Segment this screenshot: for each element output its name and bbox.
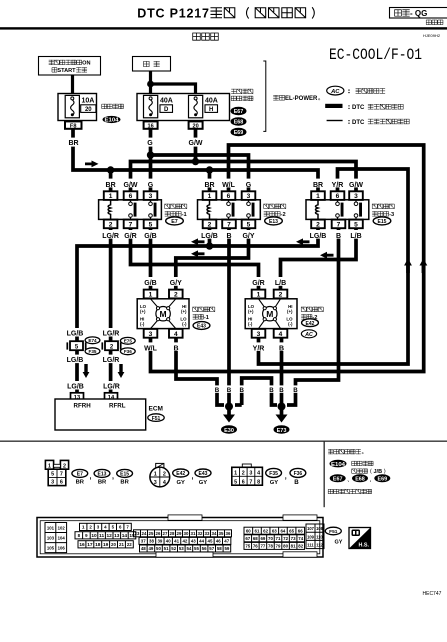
wire label LG/R mid <box>102 355 122 364</box>
svg-text:LG/B: LG/B <box>67 384 84 391</box>
svg-text:42: 42 <box>182 539 187 544</box>
svg-text:76: 76 <box>253 544 258 549</box>
svg-text:24: 24 <box>142 531 147 536</box>
svg-text:W/L: W/L <box>222 182 236 189</box>
svg-text:6: 6 <box>336 193 340 200</box>
pin 2 <box>169 290 183 299</box>
wire W/L loop <box>151 145 424 372</box>
arrow left on LG/B bus 2 <box>296 238 310 245</box>
svg-text:1: 1 <box>109 193 113 200</box>
ground symbol left <box>223 415 235 423</box>
svg-text:73: 73 <box>291 536 296 541</box>
svg-text:G: G <box>246 182 252 189</box>
svg-text:104: 104 <box>58 536 66 541</box>
svg-text:28: 28 <box>170 531 175 536</box>
svg-text:43: 43 <box>191 539 196 544</box>
section label <box>193 33 219 40</box>
svg-text:71: 71 <box>276 536 281 541</box>
oval E69 <box>231 128 247 136</box>
svg-text:14: 14 <box>122 533 128 539</box>
svg-text:3: 3 <box>257 331 261 338</box>
svg-text:77: 77 <box>260 544 265 549</box>
svg-text:25: 25 <box>149 531 154 536</box>
wire B relay-3 to ground <box>287 228 339 405</box>
svg-text:E69: E69 <box>378 476 388 482</box>
svg-text:AC: AC <box>304 332 313 338</box>
svg-text:66: 66 <box>298 528 303 533</box>
pin 2 <box>274 290 288 299</box>
svg-text:B: B <box>215 387 220 394</box>
svg-text:(+): (+) <box>248 309 254 314</box>
svg-text:GY: GY <box>177 480 186 486</box>
arrow left on L/B <box>320 252 334 259</box>
svg-text:55: 55 <box>194 546 199 551</box>
svg-text:,: , <box>112 474 114 481</box>
coil <box>108 200 111 220</box>
svg-text:(+): (+) <box>140 309 146 314</box>
svg-text:33: 33 <box>205 531 210 536</box>
wire BR drop relay-2 <box>208 170 212 192</box>
svg-text:57: 57 <box>209 546 214 551</box>
pin 6 <box>222 191 236 200</box>
svg-text:,: , <box>192 474 194 481</box>
oval E67 <box>231 107 247 115</box>
svg-text:5: 5 <box>247 221 251 228</box>
svg-text:45: 45 <box>208 539 213 544</box>
svg-text:LG/B: LG/B <box>67 331 84 338</box>
svg-text:(-): (-) <box>288 321 293 326</box>
svg-text:E75: E75 <box>124 339 133 344</box>
arrow up on W/L vertical <box>420 259 428 274</box>
fusible link label <box>231 89 253 93</box>
svg-text:23: 23 <box>135 531 140 536</box>
svg-text:82: 82 <box>298 544 303 549</box>
svg-text:G/W: G/W <box>124 182 138 189</box>
pin 3 <box>252 329 266 338</box>
pin 7 <box>332 220 346 229</box>
vertical divider <box>324 442 325 508</box>
svg-text:1: 1 <box>316 193 320 200</box>
pin 1 <box>144 290 158 299</box>
svg-text:32: 32 <box>198 531 203 536</box>
coil <box>316 200 319 220</box>
pin 3 <box>144 191 158 200</box>
svg-text:54: 54 <box>186 546 191 551</box>
svg-text:1: 1 <box>48 463 51 469</box>
oval E104 <box>103 116 121 123</box>
svg-text:19: 19 <box>103 542 109 548</box>
wire BR drop relay-1 <box>109 170 113 192</box>
wire label LG/B low <box>66 381 86 390</box>
svg-text:2: 2 <box>208 221 212 228</box>
svg-text:111: 111 <box>307 543 314 548</box>
svg-text:64: 64 <box>280 528 285 533</box>
pin 1 <box>311 191 325 200</box>
svg-text:79: 79 <box>276 544 281 549</box>
svg-text:BR: BR <box>313 182 323 189</box>
svg-text:47: 47 <box>224 539 229 544</box>
svg-text:63: 63 <box>272 528 277 533</box>
svg-text:BR: BR <box>76 480 85 486</box>
wire LG/B bus to ECM <box>77 228 318 394</box>
arrow up on Y/R vertical <box>404 259 412 274</box>
svg-text:106: 106 <box>58 546 66 551</box>
svg-text:37: 37 <box>141 539 146 544</box>
svg-text:G: G <box>148 182 154 189</box>
contact 3-5 <box>248 200 250 220</box>
header rule <box>0 27 447 29</box>
svg-text:E67: E67 <box>333 476 343 482</box>
wire B relay-2 to ground <box>227 228 231 407</box>
svg-text:J/B: J/B <box>374 469 383 475</box>
svg-text:Y/R: Y/R <box>253 345 265 352</box>
svg-text:22: 22 <box>127 542 132 547</box>
pin 3 <box>144 329 158 338</box>
wire ignition to fuse <box>71 75 74 94</box>
svg-text:3: 3 <box>249 471 252 477</box>
svg-text:H.S.: H.S. <box>359 543 370 549</box>
relay U3 cooling fan relay-3 <box>306 179 394 240</box>
svg-text:G: G <box>147 140 153 147</box>
junction ground right <box>278 403 286 411</box>
svg-text:60: 60 <box>246 528 251 533</box>
svg-text:3: 3 <box>247 193 251 200</box>
svg-text:1: 1 <box>208 193 212 200</box>
svg-text:105: 105 <box>47 546 55 551</box>
svg-text:HEC747: HEC747 <box>423 591 442 597</box>
svg-text:2: 2 <box>163 472 166 478</box>
pin F8 <box>65 121 82 128</box>
pin 5 <box>144 220 158 229</box>
svg-text:2: 2 <box>316 221 320 228</box>
junction G/W <box>192 158 199 165</box>
wire B motor-2 to ground <box>280 338 284 407</box>
pin 3 <box>242 191 256 200</box>
junction LG/B <box>206 242 213 249</box>
svg-text:39: 39 <box>157 539 162 544</box>
svg-text:LG/R: LG/R <box>103 384 120 391</box>
svg-text:BR: BR <box>98 480 107 486</box>
svg-text:E7: E7 <box>77 472 83 478</box>
wire color G/W <box>187 138 205 147</box>
svg-text:G/W: G/W <box>189 140 203 147</box>
junction BR relay-2 <box>206 166 213 173</box>
contact 3-5 <box>355 200 357 220</box>
oval F35 <box>85 348 100 355</box>
svg-text:58: 58 <box>217 546 222 551</box>
svg-text:LG/R: LG/R <box>103 331 120 338</box>
svg-text:18: 18 <box>95 542 101 548</box>
svg-text:12: 12 <box>107 533 113 539</box>
svg-text:E69: E69 <box>234 130 244 136</box>
svg-text:B: B <box>279 345 284 352</box>
contact 6-7 <box>337 200 339 220</box>
relay connector face <box>45 460 68 485</box>
inline connector face <box>232 464 263 485</box>
junction G <box>147 151 154 158</box>
svg-text:108: 108 <box>316 526 324 531</box>
svg-text:EC-COOL/F-O1: EC-COOL/F-O1 <box>329 46 422 64</box>
svg-text:E104: E104 <box>331 462 345 468</box>
svg-text:1: 1 <box>257 292 261 299</box>
svg-text:F51: F51 <box>152 416 161 422</box>
svg-text:M: M <box>266 309 273 319</box>
svg-text:G/W: G/W <box>349 182 363 189</box>
oval AC <box>301 330 316 338</box>
B labels at ground legs <box>213 385 221 392</box>
svg-text:107: 107 <box>307 526 315 531</box>
svg-text:E43: E43 <box>199 471 208 477</box>
oval F36 face <box>290 468 306 477</box>
junction ground left <box>225 403 233 411</box>
svg-text:7: 7 <box>129 221 133 228</box>
svg-text:6: 6 <box>129 193 133 200</box>
svg-text:F35: F35 <box>269 471 278 477</box>
oval E74 <box>85 337 100 344</box>
svg-text:27: 27 <box>163 531 168 536</box>
svg-text:3: 3 <box>51 480 54 486</box>
wire battery to fuses <box>151 71 196 94</box>
pin 2 <box>104 220 118 229</box>
svg-text:16: 16 <box>79 542 85 548</box>
fuse 10A element <box>65 95 79 117</box>
svg-text:20: 20 <box>111 542 116 547</box>
svg-text:5: 5 <box>149 221 153 228</box>
motor internals <box>151 299 176 329</box>
arrow down beside LG/B <box>83 364 90 378</box>
svg-text:B: B <box>173 345 178 352</box>
svg-text:109: 109 <box>307 534 315 539</box>
ground oval E73 <box>274 425 290 433</box>
pin 2 <box>203 220 217 229</box>
pin 4 <box>274 329 288 338</box>
svg-text:BR: BR <box>120 480 129 486</box>
pin 6 <box>124 191 138 200</box>
svg-text:RFRH: RFRH <box>74 402 92 409</box>
oval E7 face <box>72 469 88 477</box>
oval E15 <box>373 217 391 225</box>
svg-text:112: 112 <box>316 543 323 548</box>
svg-text:E13: E13 <box>98 472 107 478</box>
svg-text:3: 3 <box>149 331 153 338</box>
svg-text:EL-POWER: EL-POWER <box>285 96 318 102</box>
svg-text:-1: -1 <box>182 212 187 218</box>
pin 16 <box>144 121 158 128</box>
svg-text:74: 74 <box>298 536 303 541</box>
svg-text:5: 5 <box>234 479 237 485</box>
motor M2 cooling fan motor-2 <box>245 277 323 352</box>
svg-text:BR: BR <box>204 182 214 189</box>
svg-text:5: 5 <box>354 221 358 228</box>
ignition switch box <box>39 57 101 76</box>
oval E15 face <box>117 469 133 477</box>
svg-text:E42: E42 <box>306 321 315 327</box>
svg-text:6: 6 <box>242 479 245 485</box>
oval F51 <box>148 414 164 422</box>
svg-text:G/B: G/B <box>144 233 156 240</box>
svg-text:E68: E68 <box>355 476 365 482</box>
battery box <box>133 57 171 72</box>
svg-text:F8: F8 <box>70 123 77 129</box>
oval E43 face <box>195 469 211 477</box>
svg-text:LG/B: LG/B <box>201 233 218 240</box>
relay U2 cooling fan relay-2 <box>198 179 286 240</box>
pin 1 <box>104 191 118 200</box>
svg-text:F35: F35 <box>89 349 97 354</box>
wire LG/R to ECM <box>109 228 113 394</box>
svg-text:75: 75 <box>245 544 250 549</box>
svg-text:H: H <box>209 107 213 113</box>
svg-text:3: 3 <box>354 193 358 200</box>
svg-text:,: , <box>285 474 287 481</box>
oval E13 <box>265 217 283 225</box>
svg-text:20: 20 <box>192 123 198 129</box>
oval F35 face <box>266 468 282 477</box>
svg-text:16: 16 <box>147 123 153 129</box>
svg-text:GY: GY <box>270 480 279 486</box>
svg-text:E30: E30 <box>224 428 234 434</box>
svg-text:LG/B: LG/B <box>67 357 84 364</box>
svg-text:44: 44 <box>199 539 204 544</box>
svg-text:7: 7 <box>227 221 231 228</box>
svg-text:48: 48 <box>141 546 146 551</box>
svg-text:M: M <box>160 309 167 319</box>
pin 1 <box>203 191 217 200</box>
svg-text:E104: E104 <box>105 118 119 124</box>
pin 5 <box>242 220 256 229</box>
oval E42 face <box>173 469 189 477</box>
pin 5 <box>349 220 363 229</box>
svg-text:7: 7 <box>249 479 252 485</box>
pin 2 <box>311 220 325 229</box>
motor connector face <box>150 463 170 487</box>
svg-text:80: 80 <box>283 544 288 549</box>
pin 7 <box>124 220 138 229</box>
svg-text:40A: 40A <box>160 98 173 105</box>
oval F36 <box>120 348 135 355</box>
svg-text:-3: -3 <box>389 212 394 218</box>
ECM pin 13 <box>71 393 84 401</box>
svg-text:E42: E42 <box>176 471 185 477</box>
svg-text:110: 110 <box>316 534 323 539</box>
svg-text:4: 4 <box>279 331 283 338</box>
svg-text:Y/R: Y/R <box>332 182 344 189</box>
svg-text:B: B <box>294 479 299 486</box>
ground symbol right <box>276 415 288 423</box>
svg-text:(-): (-) <box>248 321 253 326</box>
svg-text:67: 67 <box>245 536 250 541</box>
svg-text:ON: ON <box>82 61 90 67</box>
svg-text:31: 31 <box>191 531 196 536</box>
motor internals <box>259 299 281 329</box>
wire label LG/R upper <box>102 328 122 337</box>
wire L/B <box>281 228 357 290</box>
oval E68 ref <box>352 474 368 482</box>
oval E7 <box>166 217 184 225</box>
contact 6-7 <box>130 200 132 220</box>
oval E68 <box>231 117 247 125</box>
svg-text:3: 3 <box>154 480 157 486</box>
svg-text:1: 1 <box>82 525 85 531</box>
svg-text:- QG: - QG <box>410 9 427 18</box>
pin 7 <box>222 220 236 229</box>
pin 6 <box>331 191 345 200</box>
junction battery <box>147 81 154 88</box>
svg-text:G/Y: G/Y <box>242 233 254 240</box>
svg-text:10A: 10A <box>82 98 95 105</box>
svg-text:29: 29 <box>177 531 182 536</box>
svg-text:B: B <box>239 387 244 394</box>
svg-text:HJE09H2: HJE09H2 <box>423 33 441 38</box>
inline connector 2 <box>102 342 120 349</box>
svg-text:-1: -1 <box>204 315 209 321</box>
oval F51 ref <box>325 527 341 535</box>
oval E43 <box>193 322 210 330</box>
svg-text:2: 2 <box>63 463 66 469</box>
legend thick line <box>325 104 342 108</box>
svg-text:B: B <box>293 387 298 394</box>
svg-text:2: 2 <box>279 292 283 299</box>
svg-text:4: 4 <box>174 331 178 338</box>
wire G/B <box>149 228 153 290</box>
fuse block label <box>102 104 124 108</box>
relay U1 cooling fan relay-1 <box>99 179 187 240</box>
svg-text:DTC: DTC <box>352 105 365 111</box>
svg-text:21: 21 <box>119 542 124 547</box>
svg-text:GY: GY <box>199 480 208 486</box>
svg-text:DTC P1217: DTC P1217 <box>137 7 210 21</box>
pin 4 <box>169 329 183 338</box>
svg-text:35: 35 <box>219 531 224 536</box>
svg-text:30: 30 <box>184 531 189 536</box>
svg-text:34: 34 <box>212 531 217 536</box>
svg-text:BR: BR <box>106 182 116 189</box>
svg-text:L/B: L/B <box>275 280 286 287</box>
fuse 40A D element <box>144 95 158 117</box>
ECM connector pinout box <box>37 515 324 557</box>
svg-text:51: 51 <box>164 546 169 551</box>
wire B bridge <box>242 378 277 405</box>
svg-text:7: 7 <box>337 221 341 228</box>
ground stub right <box>280 407 284 416</box>
svg-text:13: 13 <box>114 533 120 539</box>
svg-text:5: 5 <box>51 472 54 478</box>
svg-text:E15: E15 <box>378 219 387 225</box>
svg-text:81: 81 <box>291 544 296 549</box>
svg-text:E7: E7 <box>171 219 178 225</box>
svg-text:(+): (+) <box>181 309 187 314</box>
svg-text:40A: 40A <box>205 98 218 105</box>
svg-text:38: 38 <box>149 539 154 544</box>
svg-text:65: 65 <box>289 528 294 533</box>
svg-text:40: 40 <box>166 539 171 544</box>
wire G/R <box>131 228 259 290</box>
svg-text:B: B <box>227 387 232 394</box>
pin 20 <box>189 121 203 128</box>
svg-text:20: 20 <box>85 107 92 113</box>
fuse 40A H element <box>189 95 203 117</box>
wire label LG/B upper <box>66 328 86 337</box>
svg-text:1: 1 <box>234 471 237 477</box>
wire label LG/B mid <box>66 355 86 364</box>
svg-text:LG/R: LG/R <box>102 233 119 240</box>
svg-text:62: 62 <box>263 528 268 533</box>
legend thin line <box>327 120 343 121</box>
svg-text:E43: E43 <box>197 324 206 330</box>
ECM box <box>55 399 146 430</box>
svg-text:START: START <box>57 68 76 74</box>
ground oval E30 <box>221 425 237 433</box>
